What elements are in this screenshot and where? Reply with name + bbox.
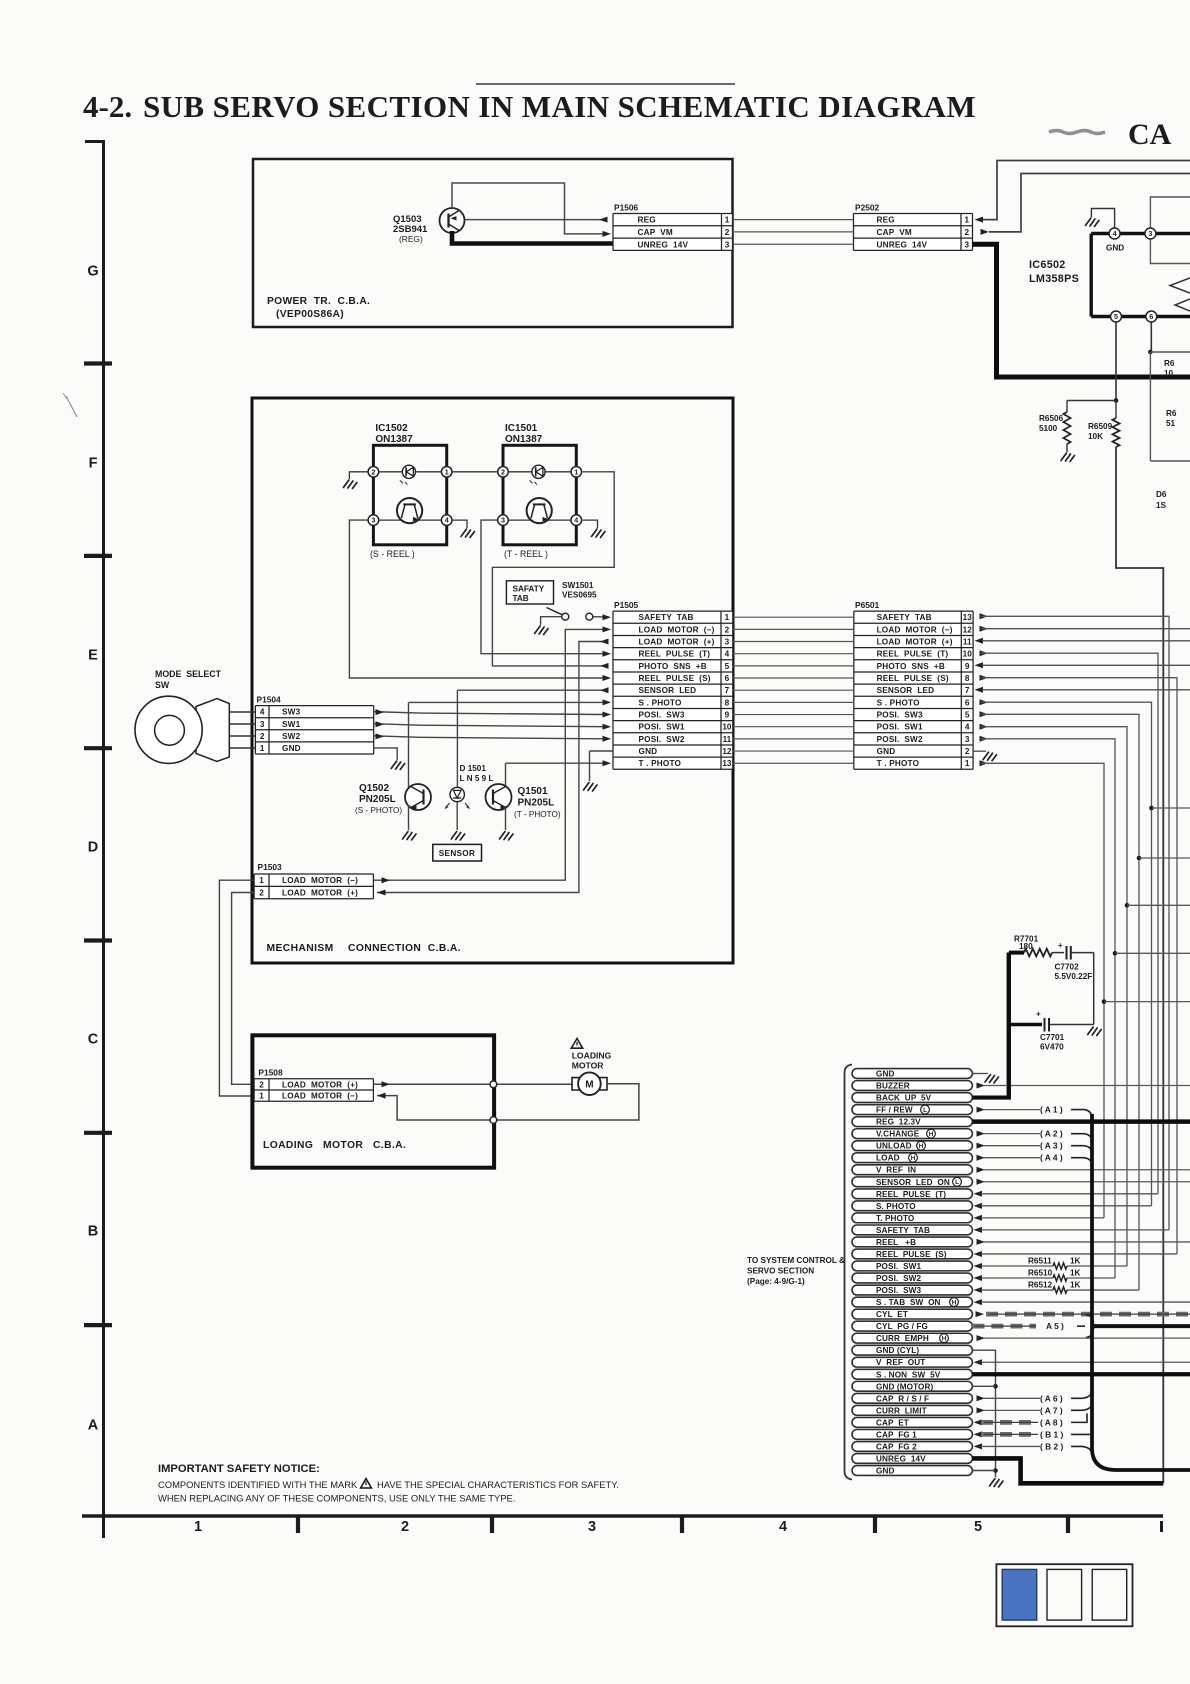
svg-text:PHOTO SNS +B: PHOTO SNS +B: [639, 662, 707, 671]
svg-text:V REF OUT: V REF OUT: [876, 1358, 925, 1367]
svg-text:P2502: P2502: [855, 203, 880, 213]
svg-text:12: 12: [963, 625, 973, 634]
svg-text:3: 3: [964, 240, 969, 249]
svg-text:IC6502: IC6502: [1029, 259, 1066, 271]
svg-text:P1505: P1505: [614, 600, 639, 610]
svg-text:R6509: R6509: [1088, 422, 1113, 431]
svg-text:PHOTO SNS +B: PHOTO SNS +B: [877, 662, 945, 671]
svg-text:SW3: SW3: [282, 708, 301, 717]
svg-text:UNREG 14V: UNREG 14V: [877, 240, 928, 249]
svg-text:D6: D6: [1156, 490, 1167, 499]
svg-text:12: 12: [722, 747, 732, 756]
svg-text:7: 7: [965, 686, 970, 695]
svg-text:V REF IN: V REF IN: [876, 1166, 916, 1175]
svg-text:10K: 10K: [1088, 432, 1103, 441]
svg-text:GND: GND: [877, 747, 896, 756]
svg-text:5: 5: [974, 1519, 982, 1535]
svg-text:1S: 1S: [1156, 501, 1167, 510]
svg-text:2: 2: [725, 228, 730, 237]
svg-text:R6: R6: [1166, 409, 1177, 418]
svg-text:M: M: [585, 1080, 593, 1091]
svg-text:A 5 ): A 5 ): [1046, 1321, 1064, 1331]
svg-text:P1508: P1508: [258, 1068, 283, 1078]
svg-text:H: H: [919, 1143, 924, 1150]
svg-text:10: 10: [963, 650, 973, 659]
svg-text:5: 5: [725, 662, 730, 671]
svg-text:1: 1: [725, 216, 730, 225]
svg-text:MOTOR: MOTOR: [572, 1061, 605, 1071]
svg-text:(T - REEL ): (T - REEL ): [504, 549, 548, 559]
svg-text:4-2.: 4-2.: [83, 89, 132, 124]
svg-text:6: 6: [1149, 312, 1153, 321]
svg-text:3: 3: [371, 516, 375, 525]
svg-text:13: 13: [963, 613, 973, 622]
svg-text:D 1501: D 1501: [460, 764, 487, 773]
svg-text:E: E: [88, 648, 98, 664]
svg-text:1: 1: [260, 744, 265, 753]
svg-text:S. PHOTO: S. PHOTO: [876, 1202, 916, 1211]
svg-text:P6501: P6501: [855, 600, 880, 610]
svg-text:LOAD: LOAD: [876, 1154, 900, 1163]
svg-text:POSI. SW2: POSI. SW2: [877, 735, 923, 744]
svg-text:SAFATY: SAFATY: [513, 585, 545, 594]
svg-text:Q1501: Q1501: [518, 786, 548, 797]
svg-text:3: 3: [588, 1519, 596, 1535]
svg-text:4: 4: [260, 708, 265, 717]
svg-text:SENSOR LED: SENSOR LED: [877, 686, 935, 695]
svg-text:TAB: TAB: [513, 594, 529, 603]
svg-text:P1503: P1503: [258, 862, 283, 872]
svg-text:180: 180: [1019, 942, 1033, 951]
svg-text:1: 1: [194, 1519, 202, 1535]
svg-text:1: 1: [574, 467, 578, 476]
svg-text:2: 2: [964, 228, 969, 237]
svg-text:PN205L: PN205L: [359, 794, 396, 805]
svg-text:SW1501: SW1501: [562, 581, 594, 590]
svg-text:CAP ET: CAP ET: [876, 1418, 909, 1427]
svg-text:2: 2: [259, 889, 264, 898]
svg-text:TO SYSTEM CONTROL &: TO SYSTEM CONTROL &: [747, 1256, 845, 1265]
svg-text:P1506: P1506: [614, 203, 639, 213]
svg-text:POSI. SW1: POSI. SW1: [877, 723, 923, 732]
svg-text:S . PHOTO: S . PHOTO: [877, 698, 920, 707]
svg-text:CONNECTION C.B.A.: CONNECTION C.B.A.: [348, 943, 461, 954]
svg-text:H: H: [952, 1299, 957, 1306]
svg-text:C: C: [88, 1032, 99, 1048]
svg-text:1K: 1K: [1070, 1269, 1081, 1278]
svg-text:5.5V0.22F: 5.5V0.22F: [1055, 972, 1093, 981]
svg-text:5: 5: [965, 711, 970, 720]
svg-text:7: 7: [725, 686, 730, 695]
svg-text:Q1502: Q1502: [359, 783, 389, 794]
svg-text:2: 2: [501, 467, 505, 476]
svg-text:( A 4 ): ( A 4 ): [1040, 1153, 1063, 1163]
svg-text:REEL +B: REEL +B: [876, 1238, 916, 1247]
svg-text:( A 1 ): ( A 1 ): [1040, 1105, 1063, 1115]
svg-text:3: 3: [260, 720, 265, 729]
svg-text:H: H: [929, 1131, 934, 1138]
svg-text:( A 3 ): ( A 3 ): [1040, 1141, 1063, 1151]
svg-text:G: G: [87, 264, 98, 280]
svg-text:POSI. SW3: POSI. SW3: [877, 711, 923, 720]
svg-text:LOAD MOTOR (+): LOAD MOTOR (+): [639, 638, 715, 647]
svg-text:VES0695: VES0695: [562, 591, 597, 600]
svg-text:GND: GND: [876, 1070, 895, 1079]
svg-text:2: 2: [371, 467, 375, 476]
svg-text:3: 3: [725, 638, 730, 647]
svg-text:LOADING: LOADING: [572, 1051, 612, 1061]
svg-text:H: H: [942, 1336, 947, 1343]
svg-text:LOAD MOTOR (+): LOAD MOTOR (+): [282, 1080, 358, 1089]
svg-text:ON1387: ON1387: [375, 434, 413, 445]
svg-text:2: 2: [401, 1519, 409, 1535]
svg-text:T. PHOTO: T. PHOTO: [876, 1214, 915, 1223]
svg-text:POSI. SW2: POSI. SW2: [876, 1274, 921, 1283]
svg-text:R6506: R6506: [1039, 414, 1064, 423]
svg-text:CA: CA: [1128, 118, 1172, 151]
svg-text:5100: 5100: [1039, 424, 1058, 433]
svg-text:SERVO SECTION: SERVO SECTION: [747, 1267, 814, 1276]
svg-text:3: 3: [725, 240, 730, 249]
svg-text:FF / REW: FF / REW: [876, 1106, 913, 1115]
svg-text:SW: SW: [155, 680, 170, 690]
svg-text:C7701: C7701: [1040, 1033, 1065, 1042]
svg-text:IMPORTANT SAFETY NOTICE:: IMPORTANT SAFETY NOTICE:: [158, 1463, 320, 1475]
svg-text:REEL PULSE (S): REEL PULSE (S): [876, 1250, 947, 1259]
svg-text:( B 2 ): ( B 2 ): [1040, 1441, 1063, 1451]
svg-text:UNLOAD: UNLOAD: [876, 1142, 912, 1151]
svg-text:4: 4: [1113, 229, 1117, 238]
svg-text:2: 2: [259, 1080, 264, 1089]
svg-text:(S - PHOTO): (S - PHOTO): [355, 806, 402, 815]
svg-text:LOAD MOTOR (−): LOAD MOTOR (−): [877, 625, 953, 634]
svg-text:PN205L: PN205L: [518, 798, 555, 809]
svg-text:REEL PULSE (T): REEL PULSE (T): [876, 1190, 946, 1199]
svg-text:UNREG 14V: UNREG 14V: [638, 240, 689, 249]
svg-text:4: 4: [779, 1519, 787, 1535]
svg-text:SENSOR: SENSOR: [439, 849, 475, 858]
svg-text:SAFETY TAB: SAFETY TAB: [876, 1226, 930, 1235]
svg-text:1: 1: [259, 876, 264, 885]
svg-text:F: F: [89, 456, 98, 472]
svg-text:SW1: SW1: [282, 720, 301, 729]
svg-text:(S - REEL ): (S - REEL ): [370, 549, 415, 559]
svg-text:LOADING MOTOR C.B.A.: LOADING MOTOR C.B.A.: [263, 1140, 406, 1151]
svg-text:BACK UP 5V: BACK UP 5V: [876, 1094, 932, 1103]
svg-text:SAFETY TAB: SAFETY TAB: [877, 613, 932, 622]
svg-text:9: 9: [965, 662, 970, 671]
svg-text:CURR LIMIT: CURR LIMIT: [876, 1406, 927, 1415]
svg-text:4: 4: [574, 516, 578, 525]
svg-text:S . PHOTO: S . PHOTO: [639, 698, 682, 707]
svg-text:LM358PS: LM358PS: [1029, 273, 1079, 285]
svg-text:T . PHOTO: T . PHOTO: [877, 759, 920, 768]
svg-text:GND (MOTOR): GND (MOTOR): [876, 1382, 934, 1391]
svg-text:IC1502: IC1502: [375, 423, 408, 434]
svg-text:GND: GND: [876, 1466, 895, 1475]
svg-text:SUB SERVO SECTION IN MAIN SCHE: SUB SERVO SECTION IN MAIN SCHEMATIC DIAG…: [143, 89, 976, 124]
svg-text:1K: 1K: [1070, 1256, 1081, 1265]
svg-text:4: 4: [725, 650, 730, 659]
svg-text:S . TAB SW ON: S . TAB SW ON: [876, 1298, 941, 1307]
svg-text:MECHANISM: MECHANISM: [267, 943, 334, 954]
svg-text:6: 6: [965, 698, 970, 707]
svg-text:R6512: R6512: [1028, 1281, 1053, 1290]
svg-text:CAP VM: CAP VM: [638, 228, 673, 237]
svg-text:11: 11: [963, 638, 972, 647]
svg-text:CAP R / S / F: CAP R / S / F: [876, 1394, 929, 1403]
svg-text:REEL PULSE (T): REEL PULSE (T): [639, 650, 711, 659]
svg-text:CAP FG 2: CAP FG 2: [876, 1442, 917, 1451]
svg-text:IC1501: IC1501: [505, 423, 538, 434]
svg-text:10: 10: [722, 723, 732, 732]
svg-text:( B 1 ): ( B 1 ): [1040, 1429, 1063, 1439]
svg-text:POSI. SW1: POSI. SW1: [639, 723, 685, 732]
svg-text:CYL ET: CYL ET: [876, 1310, 908, 1319]
svg-text:D: D: [88, 840, 98, 856]
svg-text:1: 1: [964, 216, 969, 225]
svg-text:REG 12.3V: REG 12.3V: [876, 1118, 921, 1127]
svg-text:11: 11: [723, 735, 732, 744]
svg-text:2: 2: [965, 747, 970, 756]
svg-text:R6511: R6511: [1028, 1256, 1052, 1265]
svg-text:10: 10: [1164, 369, 1174, 378]
svg-text:T . PHOTO: T . PHOTO: [639, 759, 682, 768]
svg-text:( A 6 ): ( A 6 ): [1040, 1393, 1063, 1403]
svg-text:L N 5 9 L: L N 5 9 L: [460, 774, 494, 783]
svg-text:1: 1: [259, 1092, 264, 1101]
svg-text:MODE SELECT: MODE SELECT: [155, 669, 222, 679]
svg-text:POWER TR. C.B.A.: POWER TR. C.B.A.: [267, 296, 370, 307]
svg-text:1: 1: [725, 613, 730, 622]
svg-text:REEL PULSE (T): REEL PULSE (T): [877, 650, 949, 659]
svg-text:R6510: R6510: [1028, 1269, 1053, 1278]
svg-text:POSI. SW2: POSI. SW2: [639, 735, 685, 744]
svg-text:SENSOR LED: SENSOR LED: [639, 686, 697, 695]
svg-text:CURR EMPH: CURR EMPH: [876, 1334, 929, 1343]
svg-text:5: 5: [1114, 312, 1118, 321]
svg-text:3: 3: [1148, 229, 1152, 238]
svg-text:1: 1: [965, 759, 970, 768]
svg-text:SENSOR LED ON: SENSOR LED ON: [876, 1178, 950, 1187]
svg-text:L: L: [923, 1107, 927, 1114]
svg-text:CAP VM: CAP VM: [877, 228, 912, 237]
svg-text:(Page: 4-9/G-1): (Page: 4-9/G-1): [747, 1277, 805, 1286]
svg-text:+: +: [1058, 941, 1063, 950]
svg-text:LOAD MOTOR (−): LOAD MOTOR (−): [282, 876, 358, 885]
svg-text:REEL PULSE (S): REEL PULSE (S): [639, 674, 711, 683]
svg-text:CYL PG / FG: CYL PG / FG: [876, 1322, 928, 1331]
svg-text:UNREG 14V: UNREG 14V: [876, 1454, 926, 1463]
svg-text:2: 2: [725, 625, 730, 634]
svg-text:9: 9: [725, 711, 730, 720]
svg-text:1: 1: [445, 467, 449, 476]
svg-text:POSI. SW1: POSI. SW1: [876, 1262, 921, 1271]
svg-text:L: L: [955, 1179, 959, 1186]
svg-text:(VEP00S86A): (VEP00S86A): [276, 309, 344, 320]
svg-text:1K: 1K: [1070, 1281, 1081, 1290]
svg-text:(REG): (REG): [399, 234, 423, 244]
svg-text:( A 8 ): ( A 8 ): [1040, 1417, 1063, 1427]
svg-text:3: 3: [501, 516, 505, 525]
svg-text:HAVE THE SPECIAL CHARACTERISTI: HAVE THE SPECIAL CHARACTERISTICS FOR SAF…: [377, 1479, 619, 1490]
svg-text:LOAD MOTOR (+): LOAD MOTOR (+): [282, 889, 358, 898]
svg-text:( A 7 ): ( A 7 ): [1040, 1405, 1063, 1415]
svg-text:REG: REG: [638, 216, 656, 225]
svg-text:POSI. SW3: POSI. SW3: [876, 1286, 921, 1295]
svg-text:V.CHANGE: V.CHANGE: [876, 1130, 920, 1139]
svg-text:6V470: 6V470: [1040, 1043, 1064, 1052]
svg-text:+: +: [1036, 1010, 1041, 1019]
svg-text:B: B: [88, 1224, 98, 1240]
svg-text:SW2: SW2: [282, 732, 301, 741]
svg-text:REG: REG: [877, 216, 895, 225]
svg-text:ON1387: ON1387: [505, 434, 543, 445]
svg-text:C7702: C7702: [1055, 963, 1080, 972]
svg-text:P1504: P1504: [257, 695, 282, 705]
svg-text:REEL PULSE (S): REEL PULSE (S): [877, 674, 949, 683]
svg-text:GND: GND: [1106, 244, 1124, 253]
svg-text:8: 8: [965, 674, 970, 683]
svg-text:CAP FG 1: CAP FG 1: [876, 1430, 917, 1439]
svg-text:R6: R6: [1164, 359, 1175, 368]
svg-text:6: 6: [725, 674, 730, 683]
svg-text:A: A: [88, 1418, 99, 1434]
svg-text:( A 2 ): ( A 2 ): [1040, 1129, 1063, 1139]
svg-text:S . NON SW 5V: S . NON SW 5V: [876, 1370, 941, 1379]
svg-text:WHEN REPLACING ANY OF THESE CO: WHEN REPLACING ANY OF THESE COMPONENTS, …: [158, 1493, 515, 1504]
svg-text:SAFETY TAB: SAFETY TAB: [639, 613, 694, 622]
svg-text:LOAD MOTOR (+): LOAD MOTOR (+): [877, 638, 953, 647]
svg-text:H: H: [911, 1155, 916, 1162]
svg-text:13: 13: [722, 759, 732, 768]
svg-text:COMPONENTS IDENTIFIED WITH THE: COMPONENTS IDENTIFIED WITH THE MARK: [158, 1479, 358, 1490]
svg-text:LOAD MOTOR (−): LOAD MOTOR (−): [282, 1092, 358, 1101]
svg-text:(T - PHOTO): (T - PHOTO): [514, 810, 561, 819]
svg-text:51: 51: [1166, 419, 1176, 428]
svg-text:8: 8: [725, 698, 730, 707]
svg-text:4: 4: [965, 723, 970, 732]
svg-text:3: 3: [965, 735, 970, 744]
svg-text:GND: GND: [639, 747, 658, 756]
svg-text:2: 2: [260, 732, 265, 741]
svg-text:GND: GND: [282, 744, 301, 753]
svg-text:BUZZER: BUZZER: [876, 1082, 910, 1091]
svg-text:GND (CYL): GND (CYL): [876, 1346, 919, 1355]
svg-text:LOAD MOTOR (−): LOAD MOTOR (−): [639, 625, 715, 634]
svg-text:4: 4: [445, 516, 449, 525]
svg-text:POSI. SW3: POSI. SW3: [639, 711, 685, 720]
